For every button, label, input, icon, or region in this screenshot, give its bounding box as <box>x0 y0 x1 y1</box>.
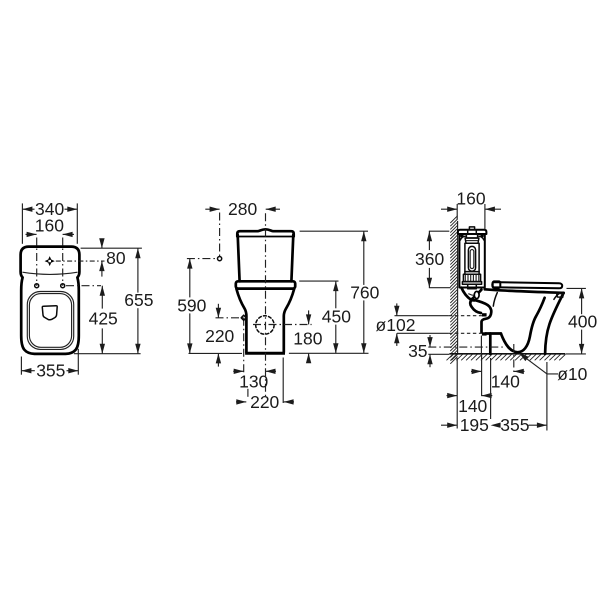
bowl back bulge <box>476 300 491 332</box>
seat side bar <box>492 282 562 288</box>
bowl inner back line <box>493 293 497 307</box>
flush channel outer <box>461 288 475 301</box>
dim 195 <box>441 358 489 435</box>
outlet axis horizontal (front) <box>253 324 312 326</box>
dim 180 <box>293 310 322 363</box>
vertical centerline (front) <box>265 213 267 399</box>
pedestal back edge <box>489 334 492 354</box>
wall with hatching <box>450 216 457 364</box>
svg-text:400: 400 <box>568 312 597 332</box>
dim 80 <box>99 238 126 276</box>
dim 160 (side) <box>441 189 501 230</box>
WC top view outer silhouette <box>21 247 80 354</box>
cistern side left (front) <box>238 235 240 281</box>
cistern lid bottom line <box>237 236 293 238</box>
outlet axis vertical (side) <box>513 344 515 373</box>
bowl rim line <box>497 290 564 293</box>
hinge hole left <box>35 284 39 288</box>
bowl left side (front) <box>236 289 246 352</box>
svg-text:ø102: ø102 <box>376 315 416 335</box>
dim 450 <box>299 281 351 353</box>
hinge axis centerline <box>66 285 101 287</box>
seat hinge block <box>493 281 501 288</box>
lid bolt left <box>460 234 463 237</box>
leader diameter 10 <box>519 353 588 384</box>
seat inner ring <box>29 294 71 348</box>
dim 355 (side) <box>491 358 547 435</box>
flush valve assembly <box>462 227 481 289</box>
dim 360 <box>415 231 451 288</box>
lid bolt right <box>480 234 483 237</box>
dim 220 (base width) <box>236 358 294 413</box>
dim 340 <box>22 199 77 244</box>
dim 400 <box>566 288 597 354</box>
inlet stub lower <box>482 332 487 335</box>
fixing hole centerline <box>216 318 244 375</box>
dim 590 <box>177 259 242 354</box>
svg-text:355: 355 <box>36 361 65 381</box>
trap curve <box>501 298 545 352</box>
hinge node centerline <box>187 258 218 260</box>
hinge-rim joint <box>485 288 497 292</box>
dim diameter 102 <box>376 303 482 346</box>
water spot <box>42 306 57 320</box>
cistern box (side) <box>459 234 484 288</box>
flush channel upper edge <box>471 290 482 300</box>
channel inner arc <box>468 294 474 296</box>
center cross star <box>45 256 55 266</box>
svg-text:590: 590 <box>177 295 206 315</box>
svg-text:195: 195 <box>460 415 489 435</box>
svg-text:220: 220 <box>250 392 279 412</box>
seat bumper <box>557 293 564 297</box>
dim 655 <box>74 248 154 354</box>
svg-text:180: 180 <box>293 329 322 349</box>
cistern lid (side) <box>458 230 487 234</box>
dim 140 (outlet) <box>471 354 525 396</box>
svg-text:655: 655 <box>124 290 153 310</box>
inlet pipe top edge <box>470 300 481 313</box>
stub vertical line <box>480 336 482 354</box>
svg-text:450: 450 <box>322 306 351 326</box>
dim 140 (wall) <box>447 393 493 416</box>
dim 35 <box>408 335 503 367</box>
svg-text:130: 130 <box>239 371 268 391</box>
dim 130 <box>233 369 276 392</box>
svg-text:35: 35 <box>408 341 427 361</box>
foot step <box>485 332 501 335</box>
dim 280 <box>205 199 280 219</box>
svg-text:160: 160 <box>35 215 64 235</box>
floor line <box>449 353 565 355</box>
inner rim arc <box>554 293 560 300</box>
seat outer ring <box>27 292 73 350</box>
dim 425 <box>89 286 118 354</box>
fixing hole node <box>241 315 246 320</box>
svg-text:425: 425 <box>89 309 118 329</box>
svg-text:280: 280 <box>228 199 257 219</box>
cistern base lip <box>236 281 295 288</box>
pedestal base line <box>245 352 285 355</box>
floor hatching <box>447 354 566 360</box>
dim 220 (height) <box>205 304 234 367</box>
bolt centerline left <box>36 238 38 286</box>
svg-text:160: 160 <box>456 189 485 209</box>
channel hole <box>474 291 479 298</box>
outlet circle hidden <box>256 316 274 334</box>
hinge node circle <box>218 257 222 261</box>
dim 160 (top view) <box>26 215 75 237</box>
hinge hole right <box>61 284 65 288</box>
svg-text:140: 140 <box>458 396 487 416</box>
inlet stub upper <box>482 313 487 316</box>
svg-text:ø10: ø10 <box>557 364 587 384</box>
center cross horizontal centerline <box>56 260 105 262</box>
cistern side right (front) <box>291 235 293 281</box>
bowl front outer <box>545 293 564 354</box>
corner brace left <box>460 236 465 240</box>
left centerline for 280 <box>219 213 221 257</box>
dim 760 <box>289 231 380 353</box>
cistern lid (front) <box>237 229 293 236</box>
tank bottom edge (top view) <box>22 272 77 274</box>
bolt centerline right <box>62 238 64 286</box>
svg-text:140: 140 <box>491 371 520 391</box>
svg-text:355: 355 <box>500 415 529 435</box>
dim 355 <box>21 349 78 381</box>
bowl right side (front) <box>284 289 294 352</box>
svg-text:360: 360 <box>415 249 444 269</box>
svg-text:760: 760 <box>350 282 379 302</box>
corner brace right <box>479 236 484 240</box>
svg-text:80: 80 <box>106 248 126 268</box>
svg-text:220: 220 <box>205 326 234 346</box>
